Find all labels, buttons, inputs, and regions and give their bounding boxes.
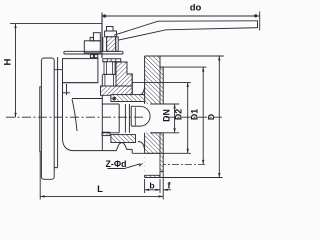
stem left sliver [103, 37, 107, 52]
dimension D2 [132, 82, 191, 153]
seat ring hatch top [113, 97, 116, 100]
bore top wall hatched band [111, 95, 145, 102]
stem block mid step [90, 37, 93, 40]
bonnet neck hatched [116, 62, 132, 86]
body cavity wall [101, 74, 103, 150]
dimension L [40, 152, 163, 200]
svg-text:D: D [206, 114, 216, 120]
Z-PHI-d leader arrow [108, 163, 144, 169]
body top edge [63, 82, 98, 84]
body end channel [127, 74, 145, 95]
stem block top step [93, 33, 100, 41]
dimension do line [102, 12, 260, 31]
dimension D1 [161, 67, 207, 164]
body bottom hump [117, 143, 133, 151]
dimension DN [150, 104, 179, 133]
svg-text:do: do [190, 3, 202, 14]
bolt hole axis centerline [146, 163, 207, 165]
handle lever [114, 21, 258, 40]
svg-text:f: f [168, 181, 171, 191]
gland studs [103, 59, 121, 62]
svg-text:L: L [97, 184, 103, 195]
stem top tab [107, 27, 114, 32]
body hub echo line [66, 84, 68, 95]
ball port D-shape [131, 106, 150, 126]
svg-text:H: H [3, 58, 14, 65]
svg-text:D2: D2 [174, 109, 184, 120]
dimension f [163, 189, 171, 191]
dimension b [145, 179, 160, 193]
seat ring hatch bottom [102, 132, 110, 135]
body shoulder line [63, 92, 71, 94]
seat rings verticals [119, 104, 129, 133]
dimension H witness line [10, 23, 102, 25]
body waist curve [72, 99, 77, 131]
left flange [41, 58, 54, 179]
stem block [84, 41, 100, 53]
svg-text:Z-Φd: Z-Φd [106, 159, 127, 169]
left flange hub ring [54, 57, 62, 168]
body hub and bottom S outline [63, 70, 117, 151]
svg-text:DN: DN [161, 109, 171, 122]
dimension H line [14, 24, 16, 118]
bore lines [102, 104, 163, 133]
packing hub hatched [107, 37, 116, 52]
bonnet bottom flange hatched [101, 86, 133, 95]
stem nut [105, 31, 117, 37]
do witness / stem axis vertical [101, 13, 103, 59]
left flange raised face [40, 87, 42, 152]
gland plate [64, 51, 123, 54]
right flange hub fillet bottom [138, 142, 145, 151]
svg-text:b: b [149, 181, 154, 191]
dimension D [160, 56, 224, 178]
svg-text:D1: D1 [190, 109, 200, 120]
bore bottom wall hatched band [111, 135, 136, 143]
right flange section [145, 56, 164, 178]
gland follower strip [116, 37, 119, 52]
body inner shoulder [72, 98, 102, 100]
pipe centerline [6, 116, 222, 118]
gland feet bolts [90, 55, 93, 58]
body end joint bottom [132, 149, 144, 153]
ball center mark [134, 108, 136, 126]
bonnet dome [63, 59, 98, 83]
